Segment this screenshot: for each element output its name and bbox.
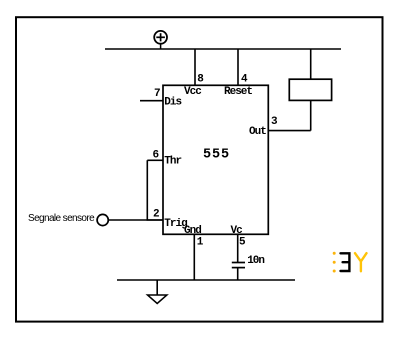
wire terminal to pin 2 [108,219,163,221]
IC 555 timer body [163,85,268,234]
power supply symbol +V [154,31,167,49]
wire bottom ground rail [117,279,295,281]
wire top power rail [105,48,341,50]
ground [148,280,167,304]
svg-text:555: 555 [203,148,230,163]
svg-text:10n: 10n [247,255,264,267]
wire resistor to out [310,100,312,130]
svg-text:Thr: Thr [164,156,181,168]
logo EasyEDA [333,252,367,273]
svg-text:2: 2 [153,209,159,221]
svg-text:Dis: Dis [164,96,181,108]
pin 7 Dis stub [140,100,163,102]
svg-text:Gnd: Gnd [184,225,201,237]
resistor (box symbol) [289,79,331,100]
wire pin 1 to ground rail [193,234,195,280]
svg-text:Segnale sensore: Segnale sensore [28,213,95,224]
wire pin 4 to rail [237,49,239,85]
wire rail to resistor [310,49,312,79]
wire pin 5 to capacitor [237,234,239,262]
wire pin 8 to rail [194,49,196,85]
wire capacitor to ground rail [237,268,239,280]
svg-text:Reset: Reset [224,86,252,98]
svg-text:Out: Out [249,126,266,138]
capacitor 10n [232,255,265,268]
pin 3 Out stub [268,130,310,132]
svg-text:6: 6 [153,150,159,162]
svg-text:Vc: Vc [231,225,243,237]
input terminal Segnale sensore [28,213,108,226]
wire Thr to Trig [147,160,163,220]
svg-text:Vcc: Vcc [184,86,201,98]
svg-text:7: 7 [154,88,160,100]
pin 6 Thr stub [147,159,163,161]
